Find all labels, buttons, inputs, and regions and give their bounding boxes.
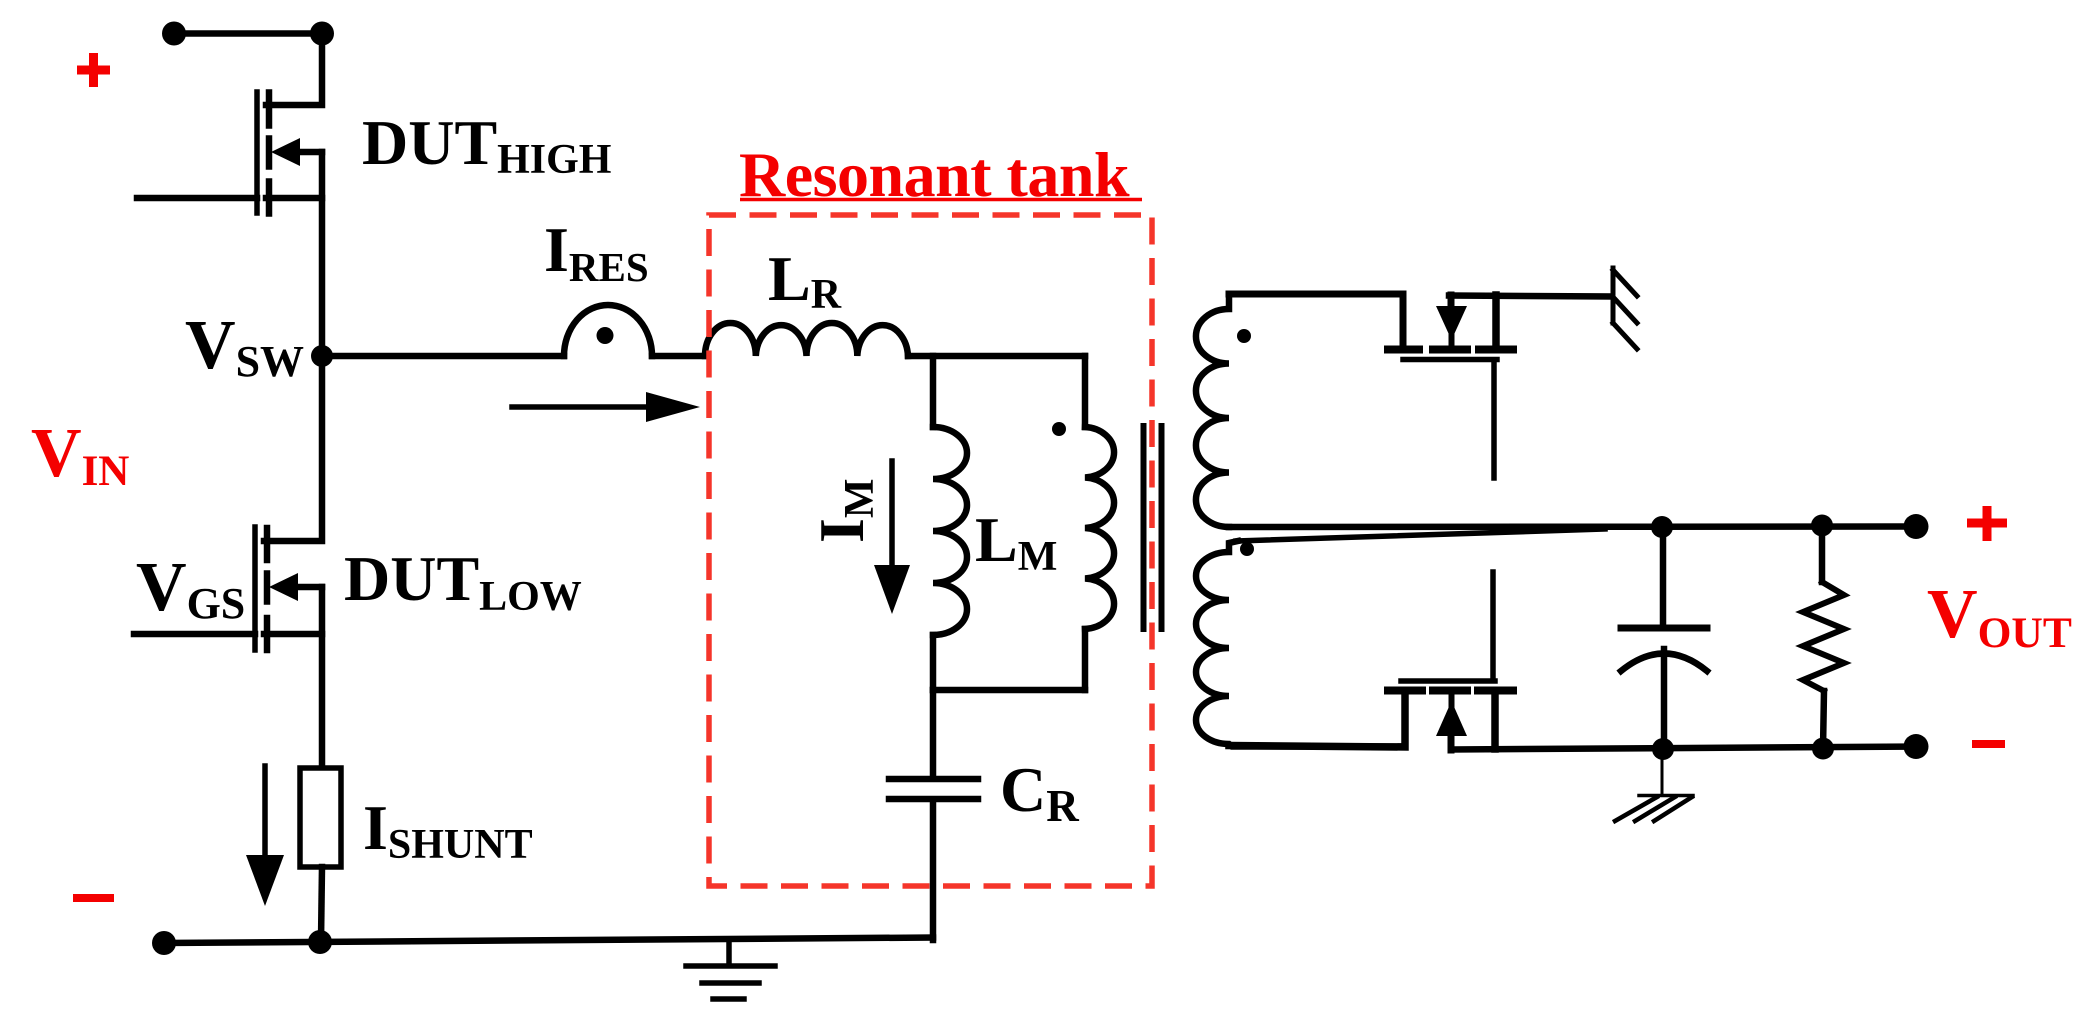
node bottom shunt junction dot	[308, 930, 332, 954]
svg-text:VIN: VIN	[31, 415, 129, 495]
svg-text:CR: CR	[1000, 754, 1079, 831]
wire primary top lead	[1082, 356, 1089, 427]
wire L_M bottom lead	[930, 635, 937, 690]
transistor SR_TOP	[1229, 294, 1612, 478]
body arrow up	[1436, 701, 1467, 736]
wire shunt to bottom rail	[321, 867, 322, 941]
source wire output minus rail	[1451, 747, 1916, 750]
source lead	[1492, 295, 1500, 347]
gate stub	[1490, 572, 1496, 679]
body arrow	[295, 584, 322, 591]
wire source of DUT_HIGH down to VSW	[319, 152, 326, 356]
wire drain of DUT_HIGH	[266, 34, 322, 106]
node output minus terminal dot	[1904, 734, 1929, 759]
wire C_R top lead	[930, 690, 937, 776]
source stub	[266, 195, 322, 202]
wire lower secondary center lead	[1236, 529, 1605, 541]
wire probe to L_R	[652, 353, 705, 360]
transistor DUT_HIGH	[137, 92, 322, 214]
node resistor top dot	[1811, 515, 1833, 537]
wire primary bottom lead	[1082, 629, 1089, 690]
transformer secondary bottom winding	[1196, 541, 1404, 747]
resistor I_SHUNT	[300, 768, 341, 867]
label - output	[1972, 740, 2005, 748]
channel segments	[264, 528, 271, 560]
drain wire from secondary	[1229, 693, 1405, 747]
inductor L_R	[705, 323, 908, 356]
node bottom left terminal dot	[152, 931, 176, 955]
arrow resonant current direction	[512, 392, 700, 422]
source stub	[264, 631, 322, 638]
transformer secondary top winding	[1196, 294, 1403, 527]
svg-text:IRES: IRES	[544, 214, 649, 290]
body arrow down	[1448, 295, 1455, 311]
wire bottom return rail	[164, 938, 933, 944]
ground chassis top right	[1613, 268, 1637, 349]
drain wire from secondary	[1229, 294, 1403, 347]
wire DUT_LOW source down to shunt	[319, 587, 326, 768]
svg-text:VSW: VSW	[185, 307, 304, 386]
svg-text:DUTHIGH: DUTHIGH	[362, 107, 611, 183]
body arrow	[297, 149, 322, 156]
channel segments	[1388, 346, 1419, 354]
ground chassis below cap	[1615, 749, 1693, 821]
gate bar	[1403, 357, 1497, 363]
node top junction dot	[310, 22, 334, 46]
svg-text:LR: LR	[768, 243, 842, 318]
transformer core bars	[1141, 426, 1147, 629]
arrow shunt current down	[246, 766, 284, 906]
node probe dot	[597, 327, 614, 344]
gate bar	[252, 527, 258, 650]
wire top input rail	[174, 30, 322, 37]
svg-text:LM: LM	[975, 504, 1057, 580]
node primary polarity dot	[1052, 422, 1066, 436]
transistor DUT_LOW	[134, 527, 322, 650]
node resistor bottom dot	[1812, 738, 1834, 760]
svg-text:IM: IM	[806, 478, 883, 543]
transformer primary winding	[1085, 427, 1114, 629]
wire output plus rail	[1229, 523, 1916, 530]
node cap top junction dot	[1651, 516, 1673, 538]
svg-text:DUTLOW: DUTLOW	[344, 543, 582, 620]
ground main earth symbol	[686, 940, 775, 999]
node input + terminal dot	[162, 22, 186, 46]
svg-text:VOUT: VOUT	[1927, 576, 2072, 657]
wire VSW down to DUT_LOW drain	[264, 356, 322, 541]
node output plus terminal dot	[1904, 514, 1929, 539]
gate bar	[254, 92, 260, 213]
gate stub	[1491, 362, 1497, 478]
wire L_M top lead	[930, 356, 937, 427]
node cap bottom junction dot	[1652, 738, 1674, 760]
wire bottom tee to primary	[933, 687, 1085, 694]
channel segments	[1388, 687, 1422, 695]
gate lead	[137, 195, 257, 202]
transistor SR_BOTTOM	[1229, 572, 1916, 750]
current probe I_RES hump	[564, 305, 652, 356]
label + input	[77, 66, 110, 75]
wire VSW to current probe	[322, 353, 564, 360]
capacitor C_R	[889, 779, 978, 940]
svg-text:ISHUNT: ISHUNT	[363, 792, 533, 868]
node secondary bottom polarity dot	[1240, 542, 1254, 556]
node VSW junction dot	[311, 345, 333, 367]
gate bar	[1401, 678, 1495, 684]
source lead	[1491, 693, 1499, 749]
inductor L_M	[933, 427, 967, 635]
label - input	[73, 894, 114, 902]
source wire to ground	[1449, 296, 1612, 297]
svg-text:VGS: VGS	[136, 549, 245, 628]
wire L_R to primary branch	[908, 353, 1085, 360]
resonant tank dashed box	[709, 215, 1152, 886]
capacitor C_OUT	[1621, 527, 1707, 749]
gate lead	[134, 631, 255, 638]
resistor R_LOAD	[1803, 526, 1844, 749]
node secondary top polarity dot	[1237, 329, 1251, 343]
arrow magnetizing current I_M	[874, 461, 910, 614]
label + output	[1967, 519, 2007, 528]
channel segments	[266, 93, 273, 126]
